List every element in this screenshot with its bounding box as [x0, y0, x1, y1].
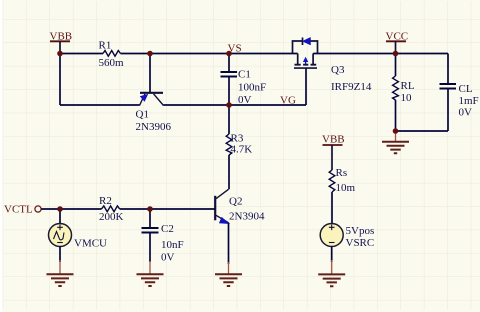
wire VBB rail down left — [59, 54, 61, 106]
svg-text:VCTL: VCTL — [4, 204, 33, 216]
svg-text:200K: 200K — [99, 211, 124, 223]
svg-text:VBB: VBB — [322, 134, 345, 146]
svg-text:5Vpos: 5Vpos — [346, 225, 375, 237]
junction node VCC — [393, 51, 399, 57]
net label VS — [228, 43, 242, 55]
power port VBB left — [50, 30, 73, 53]
power port VCC — [386, 30, 409, 53]
svg-text:0V: 0V — [161, 252, 175, 264]
junction node RL bottom — [393, 128, 399, 134]
wire VG to gate — [229, 104, 306, 106]
junction node VG — [226, 102, 232, 108]
ground at C2 — [137, 261, 164, 286]
transistor Q1 2N3906 — [136, 93, 172, 133]
svg-text:560m: 560m — [99, 57, 125, 69]
junction node VCTL rail — [57, 206, 63, 212]
wire junction to Q2 base — [150, 208, 215, 210]
capacitor CL — [440, 54, 479, 132]
transistor Q2 2N3904 — [215, 189, 265, 223]
wire lower left rail to Q1 emitter — [60, 104, 140, 106]
svg-text:C2: C2 — [161, 223, 174, 235]
resistor R1 — [99, 39, 125, 69]
wire R2 to junction C2 — [120, 208, 150, 210]
junction node VBB rail — [57, 51, 63, 57]
wire Q3 source to VCC rail — [313, 53, 448, 55]
svg-text:10m: 10m — [336, 182, 356, 194]
capacitor C1 — [221, 54, 267, 107]
wire VS to Q3 drain — [229, 53, 298, 55]
port VCTL — [4, 204, 41, 216]
svg-text:2N3904: 2N3904 — [229, 210, 265, 222]
svg-text:Q3: Q3 — [331, 64, 345, 76]
voltage source 5Vpos VSRC — [320, 224, 374, 263]
svg-text:VG: VG — [280, 95, 296, 107]
svg-text:VMCU: VMCU — [74, 237, 107, 249]
svg-text:0V: 0V — [459, 106, 473, 118]
wire gate drop — [305, 68, 307, 105]
svg-text:1mF: 1mF — [459, 95, 479, 107]
junction node C2 top — [147, 206, 153, 212]
wire CL bottom to RL bottom — [396, 130, 449, 132]
voltage source VMCU — [49, 209, 108, 262]
junction node R1 right — [147, 51, 153, 57]
svg-text:10: 10 — [401, 92, 413, 104]
svg-text:Q1: Q1 — [136, 108, 149, 120]
resistor R2 — [99, 195, 124, 223]
svg-text:4.7K: 4.7K — [231, 144, 253, 156]
wire Q2 emitter to ground — [228, 223, 230, 264]
svg-text:CL: CL — [459, 83, 473, 95]
svg-text:VSRC: VSRC — [346, 237, 375, 249]
resistor R3 — [226, 105, 252, 189]
wire VCTL to junction — [41, 208, 60, 210]
wire Q1 base drop — [149, 54, 151, 93]
svg-text:0V: 0V — [238, 94, 252, 106]
resistor Rs — [329, 167, 355, 224]
wire junction to R2 — [60, 208, 102, 210]
mosfet Q3 IRF9Z14 — [293, 37, 372, 92]
ground at Q2 — [215, 262, 242, 286]
svg-text:Rs: Rs — [336, 167, 348, 179]
ground at VMCU — [47, 260, 74, 286]
ground at VSRC — [318, 260, 345, 286]
capacitor C2 — [142, 209, 184, 264]
resistor RL — [393, 54, 415, 132]
wire VBB to R1 — [60, 53, 103, 55]
wire R1 to node VS — [121, 53, 230, 55]
svg-text:IRF9Z14: IRF9Z14 — [331, 81, 372, 93]
wire Q1 collector to node VG — [164, 104, 230, 106]
svg-text:R1: R1 — [99, 39, 112, 51]
ground at RL — [382, 131, 409, 153]
svg-text:100nF: 100nF — [238, 82, 266, 94]
svg-text:Q2: Q2 — [229, 196, 242, 208]
svg-text:RL: RL — [401, 80, 415, 92]
svg-text:R2: R2 — [99, 195, 112, 207]
power port VBB right — [322, 134, 345, 170]
junction node VS — [226, 51, 232, 57]
svg-text:10nF: 10nF — [161, 239, 184, 251]
svg-text:2N3906: 2N3906 — [136, 121, 172, 133]
net label VG — [280, 95, 296, 107]
svg-text:C1: C1 — [238, 68, 251, 80]
